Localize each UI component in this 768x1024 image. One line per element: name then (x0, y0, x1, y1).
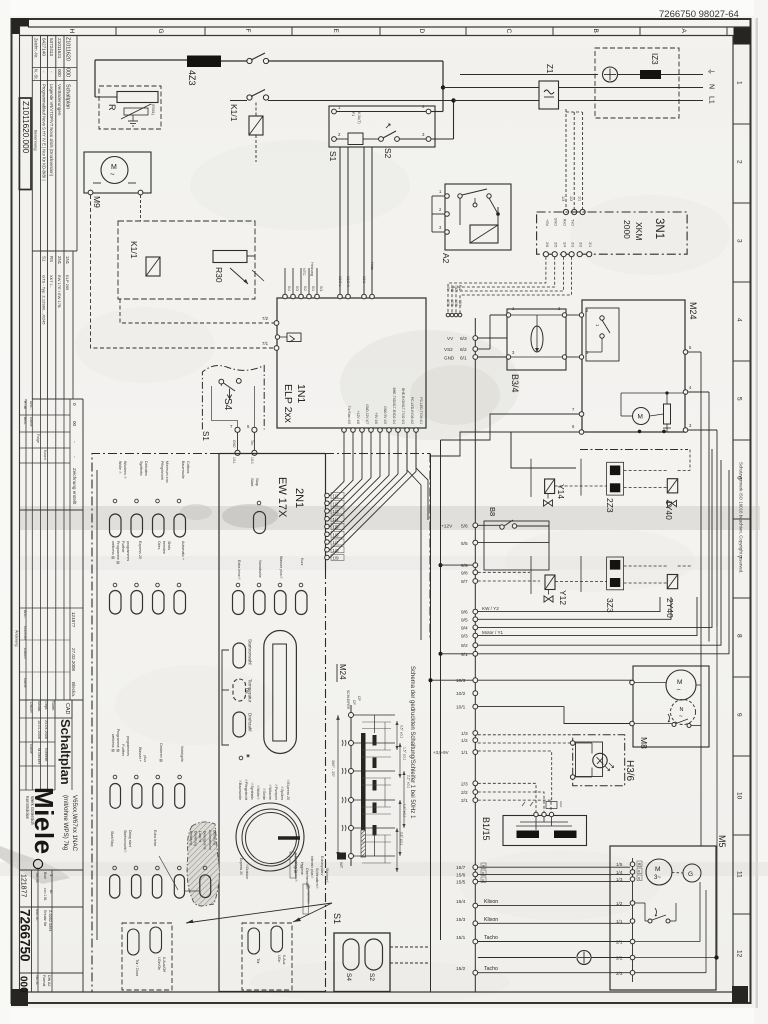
svg-text:1/9: 1/9 (333, 556, 340, 561)
svg-text:1/3: 1/3 (616, 877, 623, 882)
svg-text:M: M (638, 414, 643, 421)
B3/4 oval element (531, 326, 543, 352)
wires 15/7-5 to M5 (478, 866, 630, 868)
svg-text:Dosierung: Dosierung (194, 831, 198, 846)
svg-text:XKM: XKM (634, 222, 644, 240)
svg-text:EW 17E / EW 17B: EW 17E / EW 17B (57, 275, 62, 308)
rail terminals 9/9 9/8 9/7 (473, 563, 478, 568)
B3/4 internal wires (511, 314, 562, 316)
rail terminals 2/3 2/2 2/1 (473, 781, 478, 786)
svg-text:2/1: 2/1 (461, 798, 468, 804)
svg-text:8: 8 (736, 634, 743, 638)
power box buttons (248, 928, 260, 954)
wire 10/1 to M8 (478, 707, 633, 724)
svg-text:☉Outdoor: ☉Outdoor (245, 864, 249, 880)
svg-text:+5V: +5V (446, 285, 450, 292)
corner crop mark top-left (12, 18, 30, 34)
M8 internal wires (634, 682, 666, 684)
scan artifact smudge near start-stop (222, 504, 278, 528)
svg-text:Name: Name (29, 417, 33, 427)
svg-text:B8: B8 (488, 507, 497, 516)
selector finger verticals (374, 715, 376, 733)
B1/15 internal wires (535, 817, 537, 830)
svg-text:N: N (708, 84, 715, 89)
svg-text:Start/Stop: Start/Stop (110, 831, 114, 847)
IZ3 capacitor block (640, 70, 661, 79)
svg-text:2: 2 (736, 160, 743, 164)
svg-text:M.Becker: M.Becker (37, 748, 41, 765)
svg-text:L1: L1 (708, 96, 715, 104)
svg-text:2Z3: 2Z3 (605, 498, 615, 513)
svg-text:11: 11 (736, 871, 743, 878)
rail terminal 15/4 klixon (473, 903, 478, 908)
drawing number box Z1011620.000 (19, 98, 31, 190)
svg-text:Vorwäsche: Vorwäsche (258, 560, 262, 578)
rail terminals 6/3 6/2 6/1 (473, 336, 478, 341)
R30 adjust arrow (230, 268, 248, 284)
svg-text:5: 5 (736, 397, 743, 401)
B3/4 terminals (506, 313, 510, 317)
svg-text:M8: M8 (639, 737, 649, 749)
svg-text:K1/1: K1/1 (229, 104, 239, 122)
svg-text:GND 12V 4/7: GND 12V 4/7 (365, 404, 369, 424)
earth symbol on 2/2 wire (478, 957, 576, 959)
S2 button pill (365, 939, 383, 970)
svg-text:2N1: 2N1 (293, 488, 305, 508)
svg-text:Echtere.: Echtere. (44, 748, 48, 762)
svg-text:PC-LED-TX06 4/1: PC-LED-TX06 4/1 (419, 397, 423, 424)
relay coil K1/1 lower-left (146, 257, 160, 276)
svg-text:+5V: +5V (545, 219, 549, 226)
svg-text:☉Wolle☉: ☉Wolle☉ (256, 785, 260, 801)
selector terminal glyphs (342, 740, 346, 746)
svg-text:Vorbügeln: Vorbügeln (180, 746, 184, 762)
svg-text:Delicates: Delicates (144, 461, 148, 476)
switch S2 contacts (379, 137, 384, 142)
svg-text:9/4: 9/4 (461, 625, 468, 631)
resistor block R dashed box (99, 86, 161, 129)
S4 inner frame (212, 386, 238, 427)
programme knob ring (242, 809, 299, 866)
fan motor M8 box (633, 666, 709, 747)
svg-text:Ind.-St.: Ind.-St. (35, 975, 39, 985)
svg-text:Further: Further (121, 744, 125, 756)
svg-text:Hygiene: Hygiene (300, 862, 304, 875)
svg-text:hemden: hemden (162, 541, 166, 554)
svg-text:Dosieren ▤: Dosieren ▤ (159, 743, 163, 762)
svg-text:Express 20: Express 20 (239, 858, 243, 875)
svg-text:Datum: Datum (29, 702, 33, 713)
svg-text:S1: S1 (332, 913, 342, 924)
junction dot 9/9 on bus (439, 563, 443, 567)
title block lower grid (20, 869, 84, 871)
selector hatched end (361, 830, 366, 857)
svg-text:6427140: 6427140 (42, 38, 47, 56)
wire M9 left terminal down to ELP 7/1 dashed (91, 195, 276, 348)
svg-text:3N1: 3N1 (653, 218, 665, 239)
svg-text:2/2: 2/2 (461, 790, 468, 796)
svg-text:D: D (418, 29, 425, 34)
svg-text:000: 000 (18, 976, 29, 993)
M8 internal switch (672, 723, 676, 727)
svg-text:V65xx,W67xx 1NAC: V65xx,W67xx 1NAC (71, 795, 78, 852)
EW right edge terminals 1/1-1/9 (325, 493, 330, 498)
svg-text:Norm.: Norm. (51, 701, 55, 711)
svg-text:6/2: 6/2 (460, 347, 467, 353)
trim resistor R301 (124, 108, 148, 115)
XKM bottom terminals (543, 252, 548, 257)
door box buttons (128, 929, 140, 955)
svg-text:15/7: 15/7 (456, 865, 466, 871)
selector WT mark (337, 853, 346, 860)
svg-text:~: ~ (677, 687, 681, 694)
ELP top terminals group (283, 294, 288, 299)
svg-text:PC-LED-RX06 4/2: PC-LED-RX06 4/2 (410, 397, 414, 424)
svg-text:M5: M5 (717, 835, 727, 848)
svg-text:CP: CP (352, 700, 356, 705)
XKM terminals 1/3 1/2 1/1 (563, 209, 568, 214)
svg-text:5372413: 5372413 (49, 38, 54, 56)
svg-text:10/3: 10/3 (456, 678, 466, 684)
svg-text:7/1: 7/1 (262, 341, 269, 346)
svg-text:N: N (680, 707, 684, 713)
A2 relay coil (470, 225, 498, 243)
svg-text:12: 12 (736, 950, 743, 958)
svg-text:R: R (107, 104, 117, 111)
svg-text:☉Synthetic: ☉Synthetic (250, 782, 254, 800)
svg-text:Z1011620: Z1011620 (65, 37, 71, 61)
svg-text:10/1: 10/1 (456, 705, 466, 711)
svg-text:RxD: RxD (458, 285, 462, 292)
EW terminal tag labels (331, 493, 344, 499)
programme knob outer (236, 803, 304, 871)
svg-text:DIN A2: DIN A2 (47, 975, 51, 986)
svg-text:2/5: 2/5 (554, 242, 558, 247)
svg-text:000: 000 (65, 68, 71, 77)
component list table (40, 251, 42, 399)
panel inner vertical line (96, 470, 98, 940)
svg-text:Legende VR/VTOP/VT Novo 3/4/5: Legende VR/VTOP/VT Novo 3/4/5 (Druckvers… (49, 84, 54, 177)
svg-text:1/4: 1/4 (333, 517, 340, 522)
dashed links relay row1 (555, 485, 607, 487)
wire contact to right bus (268, 60, 443, 62)
H3/6 terminals (570, 741, 575, 746)
title block date/name grid (25, 700, 27, 790)
svg-text:13/3 N: 13/3 N (346, 276, 350, 287)
svg-text:Programmablauf Novo S HY IV E: Programmablauf Novo S HY IV E | Nur für … (42, 84, 47, 181)
svg-text:von 1 Bl.: von 1 Bl. (43, 888, 47, 901)
svg-text:7266750: 7266750 (18, 909, 33, 962)
relay row2 2Y40 coil (667, 575, 677, 589)
ELP bottom terminals 4/9..4/1 (342, 428, 347, 433)
svg-text:Bezl.: Bezl. (23, 417, 27, 425)
wire lower contact row (230, 100, 247, 102)
svg-text:1/2: 1/2 (461, 738, 468, 744)
svg-text:A: A (680, 29, 687, 34)
M24 left terminals 7 6 (579, 412, 584, 417)
rail terminal 15/3 klixon (473, 921, 478, 926)
svg-text:Heizung: Heizung (310, 262, 314, 276)
LEDs row A (113, 775, 117, 779)
svg-text:1/3: 1/3 (461, 731, 468, 737)
svg-text:1/1: 1/1 (461, 750, 468, 756)
svg-text:Motor / Y1: Motor / Y1 (482, 630, 504, 635)
svg-text:Zeichnung erstellt: Zeichnung erstellt (72, 468, 77, 505)
S4 wiring (220, 384, 222, 386)
svg-text:Startvorwahl: Startvorwahl (248, 639, 253, 665)
svg-text:2/1: 2/1 (616, 940, 623, 945)
svg-text:Express 20: Express 20 (138, 541, 142, 559)
switch S2 S4 box (334, 933, 390, 992)
svg-text:KW / Y2: KW / Y2 (482, 606, 499, 611)
svg-text:Koord.: Koord. (43, 450, 47, 461)
svg-text:M: M (655, 866, 660, 873)
knob new programme boxed labels (290, 852, 296, 878)
IZ3 earth circle symbol (603, 67, 618, 82)
svg-text:15/6: 15/6 (456, 872, 466, 878)
selector bracket lines (222, 650, 229, 745)
suppressor IZ3 dashed box (595, 48, 679, 118)
svg-text:plus: plus (143, 755, 147, 762)
svg-text:5/2: 5/2 (303, 286, 307, 291)
svg-text:10.01.2008: 10.01.2008 (37, 720, 41, 739)
svg-text:Schaltplan: Schaltplan (65, 84, 71, 109)
svg-text:Nummer: Nummer (23, 626, 27, 641)
svg-text:Übernehmen: Übernehmen (307, 885, 311, 904)
wire bundle from XKM down to rail (448, 257, 546, 313)
svg-text:☉Spülen: ☉Spülen (280, 786, 284, 800)
svg-text:Tür/Start 4/9: Tür/Start 4/9 (347, 406, 351, 424)
svg-text:M24: M24 (688, 302, 698, 320)
wire M24 to Y14 (511, 432, 576, 468)
svg-text:Intensiv plus☉: Intensiv plus☉ (310, 856, 314, 879)
svg-text:programmes: programmes (126, 736, 130, 756)
motor unit M24 box (582, 300, 685, 432)
svg-text:S/1: S/1 (319, 286, 323, 291)
vertical bus line A (430, 454, 432, 992)
revision table top-left (31, 36, 33, 252)
control panel dash-dot outline (92, 454, 219, 992)
extra wires from ELP 4/2 4/1 to right bus (407, 432, 421, 640)
svg-text:2/2: 2/2 (579, 242, 583, 247)
svg-text:0: 0 (72, 403, 77, 406)
interference suppressor B1/15 box (503, 816, 587, 846)
svg-text:SCHLEIFER: SCHLEIFER (346, 690, 350, 710)
wire fan ELP to EW terminals (328, 432, 345, 495)
svg-text:1/5: 1/5 (333, 525, 340, 530)
svg-text:Beladung: Beladung (189, 831, 193, 845)
svg-text:121877: 121877 (71, 612, 76, 628)
wires B3/4 to M24 (567, 314, 582, 316)
svg-text:Benennung: Benennung (34, 130, 39, 150)
svg-text:1/2: 1/2 (569, 196, 573, 201)
drive motor M5 box (610, 846, 716, 990)
svg-text:5/5: 5/5 (461, 541, 468, 547)
svg-text:(R301): (R301) (151, 104, 155, 115)
svg-text:Folge: Folge (36, 434, 40, 443)
svg-text:5/6: 5/6 (461, 524, 468, 530)
svg-text:17/1: 17/1 (446, 300, 450, 306)
svg-text:2/3: 2/3 (570, 242, 574, 247)
svg-text:GND: GND (559, 801, 563, 807)
svg-text:13/2 L: 13/2 L (338, 276, 342, 287)
heater contact block 3Z3 (607, 557, 624, 590)
svg-text:TxD: TxD (454, 285, 458, 292)
svg-text:360° - 25°: 360° - 25° (331, 760, 335, 777)
svg-text:Woolens ☉: Woolens ☉ (123, 461, 127, 480)
signal lamp H3/6 LED symbol (593, 753, 607, 767)
mains bus vertical N (453, 101, 455, 140)
selector buttons column v ok ^ (233, 643, 246, 668)
M5 motor circle M3~ (646, 859, 672, 885)
relay row2 Y12 coil (545, 575, 555, 590)
M5 terminals 2/1 2/2 2/3 (630, 939, 635, 944)
wires 9/8 9/7 stubs (478, 571, 530, 573)
wires 6/x to B3/4 (478, 337, 507, 339)
svg-text:Änderung: Änderung (15, 630, 19, 646)
wire top loop left vertical (94, 60, 96, 97)
svg-text:Z-5202 0694: Z-5202 0694 (48, 910, 52, 932)
wire IZ3 internals (618, 74, 641, 76)
junction node N (451, 98, 455, 102)
svg-text:Load %: Load % (198, 831, 202, 842)
M24 bottom internal wire (638, 430, 642, 434)
svg-text:2000: 2000 (622, 220, 632, 239)
svg-text:1/4: 1/4 (616, 870, 623, 875)
svg-text:Pflegeleicht: Pflegeleicht (160, 461, 164, 480)
scan artifact ghost washing machine (340, 330, 520, 440)
M5 boxed letters w v u (637, 861, 642, 867)
svg-text:S4: S4 (345, 973, 352, 981)
svg-text:0,6° ±0,1: 0,6° ±0,1 (400, 832, 404, 845)
wire bus to S1 terminal 3 (431, 138, 454, 140)
svg-text:Schleudern☉: Schleudern☉ (315, 868, 319, 890)
svg-text:2Y40: 2Y40 (665, 598, 675, 618)
svg-text:15/3: 15/3 (456, 917, 466, 923)
svg-text:GND: GND (232, 440, 236, 448)
relay row1 enclosure verticals (530, 459, 532, 497)
svg-text:Tür / Door: Tür / Door (135, 959, 139, 977)
svg-text:Tor-: Tor- (250, 440, 254, 446)
svg-text:1N1: 1N1 (295, 384, 307, 403)
programme LEDs row2 (113, 583, 117, 587)
svg-text:Schaltplan: Schaltplan (58, 719, 73, 785)
svg-text:Datum: Datum (23, 648, 27, 659)
svg-text:Extraspülen/: Extraspülen/ (320, 856, 324, 875)
wire K11 box down to ELP 7/2 dashed (120, 299, 275, 323)
svg-text:Bl.: Bl. (49, 890, 53, 894)
ELP left terminal 7/1 (274, 346, 279, 351)
svg-text:Klixon: Klixon (484, 917, 498, 923)
svg-text:H3/6: H3/6 (624, 760, 635, 782)
S4 button pill (343, 939, 359, 970)
svg-text:4Z3: 4Z3 (187, 70, 197, 86)
svg-text:Start: Start (250, 478, 255, 487)
svg-text:15/2: 15/2 (456, 966, 466, 972)
svg-text:RxD: RxD (562, 219, 566, 227)
svg-text:Schutzvermerk ISO 16016 beacht: Schutzvermerk ISO 16016 beachten. Copyri… (739, 462, 744, 574)
svg-text:+5V 4/6: +5V 4/6 (374, 413, 378, 425)
interference filter Z1 (539, 81, 559, 109)
door switch box S1 with fuse (329, 106, 435, 147)
buttons row B (110, 875, 120, 899)
svg-text:GTS - Typ: Z.12980..../0245: GTS - Typ: Z.12980..../0245 (42, 275, 47, 325)
change-record table (25, 510, 27, 700)
motor M9 terminals (88, 190, 93, 195)
dashed links relay row2 (555, 581, 607, 583)
svg-text:⏚: ⏚ (707, 68, 715, 75)
svg-text:TxD: TxD (570, 219, 574, 226)
svg-text:G: G (688, 871, 693, 878)
aqua valve 1Y40 coil (667, 479, 677, 493)
M5 terminals 1/5 1/4 1/3 (630, 862, 635, 867)
svg-text:M24: M24 (338, 664, 347, 680)
svg-text:F1: F1 (351, 112, 355, 116)
svg-text:+3,5-9V: +3,5-9V (433, 750, 449, 755)
svg-text:Schema der gedruckten Schaltun: Schema der gedruckten Schaltung/Schleife… (409, 666, 415, 819)
svg-text:Neue Progr.▤: Neue Progr.▤ (294, 853, 298, 873)
buzzer component at ELP left (287, 333, 301, 342)
svg-text:3: 3 (736, 239, 743, 243)
svg-text:Y12: Y12 (558, 590, 568, 605)
svg-text:Drehzahl: Drehzahl (248, 713, 253, 731)
door button dashed box Tuer/Door (122, 923, 172, 990)
svg-text:Veränderungen: Veränderungen (57, 84, 62, 116)
svg-text:6,3A(T): 6,3A(T) (357, 112, 361, 124)
H3/6 internal wires (575, 742, 592, 744)
S1 terminal 4 (426, 109, 431, 114)
svg-text:Stop: Stop (255, 478, 260, 487)
svg-text:S2: S2 (368, 973, 375, 981)
svg-text:Mat.-Nr.: Mat.-Nr. (35, 909, 39, 921)
mains wire N to Z1 (443, 87, 539, 89)
svg-text:Blecka.: Blecka. (71, 682, 76, 697)
wires A2 to left (432, 195, 445, 197)
svg-text:7266750 98027-64: 7266750 98027-64 (659, 9, 739, 20)
bottom inner border line (28, 991, 733, 993)
svg-text:GND: GND (450, 285, 454, 293)
display electronic 2N1 EW 17x box (219, 453, 326, 455)
svg-text:GND: GND (554, 218, 558, 227)
svg-text:Extra leise: Extra leise (153, 830, 157, 846)
svg-text:1/1: 1/1 (333, 494, 340, 499)
svg-text:1/10: 1/10 (250, 457, 254, 464)
svg-text:S2: S2 (383, 148, 393, 159)
svg-text:☉Pflegeleicht: ☉Pflegeleicht (244, 779, 248, 800)
svg-text:9/9: 9/9 (461, 563, 468, 569)
svg-text:1/3: 1/3 (333, 509, 340, 514)
M5 terminals 1/2 1/1 (630, 901, 635, 906)
svg-text:7/2: 7/2 (262, 316, 269, 321)
power button dashed box (242, 923, 292, 990)
M24 terminals left (579, 313, 583, 317)
selector contact segments (373, 735, 377, 746)
svg-text:S1: S1 (42, 256, 47, 262)
svg-text:ELP 2xx: ELP 2xx (282, 384, 294, 424)
mains wire L1 to Z1 (454, 100, 540, 102)
svg-text:Wolle ☉: Wolle ☉ (118, 461, 122, 475)
svg-text:Synthetic: Synthetic (139, 461, 143, 476)
title block CAD cell (55, 700, 72, 718)
communication module 3N1 XKM 2000 (537, 212, 688, 254)
scan artifact faint blotches (190, 140, 410, 230)
svg-text:Wasser plus☉: Wasser plus☉ (279, 556, 283, 580)
option LEDs row2 (236, 583, 240, 587)
svg-text:Startvorwahl☉: Startvorwahl☉ (123, 830, 127, 853)
svg-text:K1/1: K1/1 (129, 241, 139, 259)
wire 4Z3 to contact (221, 60, 247, 62)
svg-text:1/2: 1/2 (333, 501, 340, 506)
